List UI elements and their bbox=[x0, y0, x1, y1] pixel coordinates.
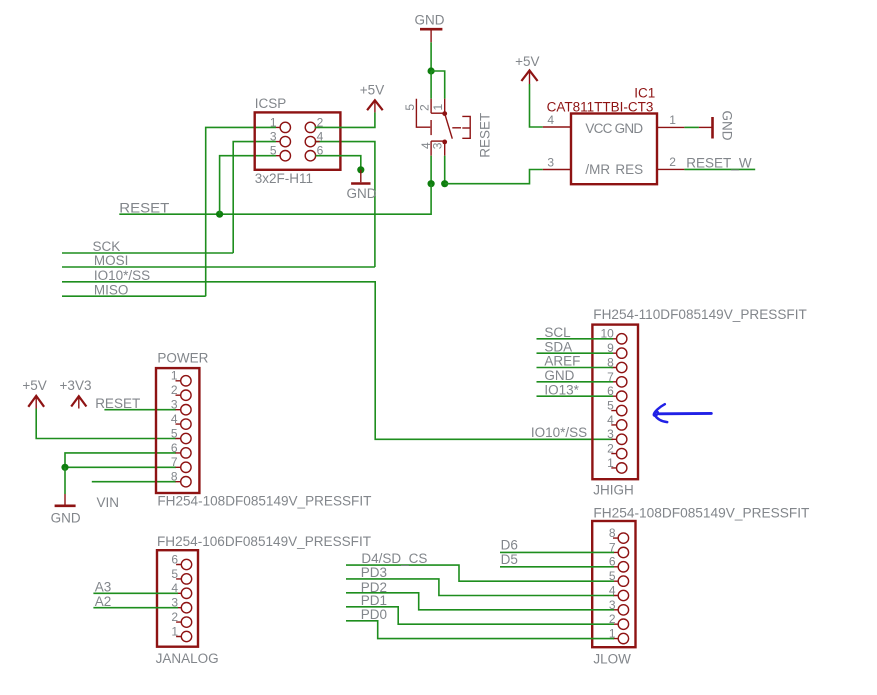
wire IO13* to JHIGH pin6 bbox=[537, 395, 614, 397]
pin number 4 (JLOW) bbox=[609, 583, 616, 597]
svg-text:RES: RES bbox=[615, 162, 643, 177]
label SDA bbox=[544, 339, 572, 354]
pin number 9 (JHIGH) bbox=[607, 341, 614, 355]
wire ICSP pin2 to +5V bbox=[315, 112, 375, 127]
svg-text:SCL: SCL bbox=[544, 325, 571, 340]
label GND net bbox=[544, 368, 574, 383]
pin number 8 (JLOW) bbox=[609, 526, 616, 540]
svg-text:D5: D5 bbox=[501, 552, 518, 567]
wire D4/SD_CS to JLOW pin5 bbox=[346, 565, 614, 581]
svg-text:1: 1 bbox=[270, 115, 277, 129]
label IO10*/SS left bbox=[94, 268, 150, 283]
svg-text:PD0: PD0 bbox=[361, 607, 387, 622]
svg-text:ICSP: ICSP bbox=[255, 96, 287, 111]
svg-text:5: 5 bbox=[270, 144, 277, 158]
label RESET (POWER) bbox=[95, 396, 140, 411]
pin 1 stub (IC1 GND) bbox=[657, 126, 684, 128]
pin number 1 (IC1) bbox=[669, 113, 676, 127]
svg-text:8: 8 bbox=[171, 470, 178, 484]
junction on RESET net bbox=[216, 211, 223, 218]
pin number 1 (POWER) bbox=[171, 369, 178, 383]
pin 4 stub (IC1 VCC) bbox=[543, 126, 571, 128]
svg-text:RESET: RESET bbox=[119, 201, 169, 216]
pin number 3 (switch) bbox=[431, 142, 445, 149]
svg-text:2: 2 bbox=[418, 104, 432, 111]
pin number 2 (JANALOG) bbox=[171, 610, 178, 624]
junction at ICSP GND bbox=[357, 166, 364, 173]
svg-text:PD1: PD1 bbox=[361, 593, 387, 608]
connector POWER FH254-108 bbox=[156, 351, 371, 509]
pin number 3 (ICSP) bbox=[270, 130, 277, 144]
svg-text:GND: GND bbox=[720, 111, 735, 141]
wire MOSI net bbox=[62, 266, 375, 268]
svg-text:3: 3 bbox=[607, 427, 614, 441]
pin number 1 (JANALOG) bbox=[171, 624, 178, 638]
svg-text:FH254-110DF085149V_PRESSFIT: FH254-110DF085149V_PRESSFIT bbox=[593, 307, 807, 322]
pin number 5 (JHIGH) bbox=[607, 399, 614, 413]
svg-text:VCC GND: VCC GND bbox=[585, 121, 643, 136]
power +3V3 bbox=[60, 378, 92, 409]
wire SDA to JHIGH pin9 bbox=[537, 352, 614, 354]
pin 3 stub (IC1 /MR) bbox=[543, 169, 571, 171]
wire +5V to IC pin4 bbox=[530, 84, 543, 127]
svg-text:5: 5 bbox=[403, 104, 417, 111]
svg-text:JANALOG: JANALOG bbox=[156, 651, 219, 666]
wire ICSP pin5 to RESET bbox=[220, 156, 276, 215]
wire ICSP pin6 to GND bbox=[316, 156, 361, 170]
svg-text:3: 3 bbox=[270, 130, 277, 144]
pin number 1 (switch) bbox=[431, 103, 445, 110]
wire switch pin4 down bbox=[430, 156, 432, 184]
label SCK bbox=[93, 239, 121, 254]
svg-text:6: 6 bbox=[171, 552, 178, 566]
label IO10*/SS at JHIGH bbox=[531, 425, 587, 440]
wire GND to JHIGH pin7 bbox=[537, 381, 614, 383]
wire +5V to POWER pin5 bbox=[36, 409, 176, 439]
pin number 2 (switch) bbox=[418, 104, 432, 111]
svg-text:3x2F-H11: 3x2F-H11 bbox=[255, 171, 313, 186]
svg-text:3: 3 bbox=[171, 398, 178, 412]
svg-text:D4/SD_CS: D4/SD_CS bbox=[361, 551, 427, 566]
power +5V (near IC1) bbox=[515, 54, 539, 84]
svg-text:GND: GND bbox=[544, 368, 574, 383]
pin number 5 (JANALOG) bbox=[171, 567, 178, 581]
svg-text:JLOW: JLOW bbox=[593, 651, 631, 666]
svg-text:3: 3 bbox=[431, 142, 445, 149]
pin number 6 (ICSP) bbox=[317, 144, 324, 158]
label RESET net bbox=[119, 201, 169, 216]
IC U1 CAT811TTBI-CT3 bbox=[547, 86, 657, 185]
svg-text:5: 5 bbox=[171, 426, 178, 440]
pin number 5 (ICSP) bbox=[270, 144, 277, 158]
label D6 bbox=[501, 538, 518, 553]
svg-text:A3: A3 bbox=[95, 580, 112, 595]
svg-text:2: 2 bbox=[171, 383, 178, 397]
svg-text:GND: GND bbox=[51, 510, 81, 525]
svg-text:1: 1 bbox=[171, 369, 178, 383]
pin number 5 (POWER) bbox=[171, 426, 178, 440]
svg-text:CAT811TTBI-CT3: CAT811TTBI-CT3 bbox=[547, 99, 654, 114]
svg-text:6: 6 bbox=[171, 441, 178, 455]
junction below switch left bbox=[428, 180, 435, 187]
svg-text:4: 4 bbox=[171, 412, 178, 426]
label MOSI bbox=[94, 253, 129, 268]
pin number 6 (JLOW) bbox=[609, 555, 616, 569]
svg-text:RESET: RESET bbox=[477, 113, 492, 158]
connector JLOW FH254-108 bbox=[592, 505, 809, 666]
wire D5 to JLOW pin6 bbox=[500, 566, 614, 568]
label A2 bbox=[95, 594, 112, 609]
wire RESET net bbox=[119, 184, 431, 215]
wire SCK net bbox=[62, 252, 233, 254]
label SCL bbox=[544, 325, 571, 340]
svg-text:1: 1 bbox=[669, 113, 676, 127]
wire junction to GND bbox=[64, 467, 66, 494]
wire POWER pin6 bbox=[65, 453, 176, 467]
svg-text:7: 7 bbox=[171, 455, 178, 469]
connector JANALOG FH254-106 bbox=[156, 534, 371, 666]
pin number 7 (JLOW) bbox=[609, 540, 616, 554]
svg-text:D6: D6 bbox=[501, 538, 518, 553]
svg-text:2: 2 bbox=[669, 155, 676, 169]
wire ICSP pin1 MISO riser bbox=[206, 127, 276, 296]
svg-text:AREF: AREF bbox=[544, 354, 580, 369]
svg-text:GND: GND bbox=[415, 13, 445, 28]
label PD2 bbox=[361, 580, 387, 595]
annotation blue arrow bbox=[654, 404, 711, 422]
svg-text:IO13*: IO13* bbox=[544, 382, 579, 397]
wire IC pin1 to GND bbox=[684, 126, 699, 128]
pin number 2 (IC1) bbox=[669, 155, 676, 169]
label PD3 bbox=[361, 565, 387, 580]
svg-text:RESET_W: RESET_W bbox=[686, 155, 752, 170]
svg-text:5: 5 bbox=[171, 567, 178, 581]
svg-text:FH254-108DF085149V_PRESSFIT: FH254-108DF085149V_PRESSFIT bbox=[157, 494, 371, 509]
connector ICSP 3x2F-H11 bbox=[255, 96, 341, 186]
pin number 6 (JANALOG) bbox=[171, 552, 178, 566]
svg-text:+5V: +5V bbox=[360, 83, 384, 98]
svg-text:/MR: /MR bbox=[585, 162, 610, 177]
pin number 7 (JHIGH) bbox=[607, 370, 614, 384]
wire A3 to JANALOG pin4 bbox=[93, 592, 178, 594]
pin number 6 (POWER) bbox=[171, 441, 178, 455]
pin number 6 (JHIGH) bbox=[607, 384, 614, 398]
connector JHIGH FH254-110 bbox=[592, 307, 806, 498]
label D4/SD_CS bbox=[361, 551, 427, 566]
svg-text:1: 1 bbox=[607, 456, 614, 470]
wire PD3 to JLOW pin4 bbox=[346, 579, 614, 596]
wire IO10*/SS net to JHIGH pin3 bbox=[62, 282, 613, 440]
ground GND (POWER) bbox=[51, 494, 81, 525]
wire junction to switch pin2 bbox=[430, 71, 432, 99]
wire D6 to JLOW pin7 bbox=[500, 551, 614, 553]
pin number 3 (JLOW) bbox=[609, 598, 616, 612]
label VIN bbox=[97, 495, 120, 510]
pin number 5 (switch) bbox=[403, 104, 417, 111]
pin number 5 (JLOW) bbox=[609, 569, 616, 583]
power +5V (left, POWER) bbox=[22, 378, 46, 409]
pin number 7 (POWER) bbox=[171, 455, 178, 469]
svg-text:2: 2 bbox=[607, 442, 614, 456]
wire RESET_W net bbox=[684, 168, 755, 170]
pin 2 stub (IC1 RES) bbox=[657, 168, 684, 170]
svg-text:1: 1 bbox=[171, 624, 178, 638]
svg-text:4: 4 bbox=[317, 130, 324, 144]
junction POWER GND bbox=[61, 464, 68, 471]
wire RESET to POWER pin3 bbox=[104, 409, 176, 411]
svg-text:IC1: IC1 bbox=[634, 86, 655, 101]
svg-text:JHIGH: JHIGH bbox=[593, 483, 634, 498]
svg-text:5: 5 bbox=[607, 399, 614, 413]
svg-text:SCK: SCK bbox=[93, 239, 121, 254]
label IO13* bbox=[544, 382, 579, 397]
wire VIN to POWER pin8 bbox=[92, 481, 176, 483]
ground GND (right of IC1, rotated) bbox=[699, 111, 735, 141]
pin number 3 (POWER) bbox=[171, 398, 178, 412]
svg-text:8: 8 bbox=[609, 526, 616, 540]
wire MISO net bbox=[62, 295, 206, 297]
pin number 1 (JLOW) bbox=[609, 627, 616, 641]
svg-text:IO10*/SS: IO10*/SS bbox=[94, 268, 150, 283]
label MISO bbox=[94, 282, 129, 297]
wire A2 to JANALOG pin3 bbox=[93, 607, 178, 609]
junction below switch right bbox=[441, 180, 448, 187]
pin number 1 (JHIGH) bbox=[607, 456, 614, 470]
pin number 2 (ICSP) bbox=[317, 115, 324, 129]
pushbutton RESET (switch S1) bbox=[416, 99, 470, 156]
wire ICSP pin4 MOSI drop bbox=[315, 142, 375, 267]
pin number 8 (POWER) bbox=[171, 470, 178, 484]
svg-text:VIN: VIN bbox=[97, 495, 120, 510]
wire GND to switch junction bbox=[430, 42, 432, 71]
wire PD1 to JLOW pin2 bbox=[346, 607, 614, 624]
label PD1 bbox=[361, 593, 387, 608]
label A3 bbox=[95, 580, 112, 595]
label AREF bbox=[544, 354, 580, 369]
wire switch to IC pin3 bbox=[445, 170, 543, 184]
ground GND top bbox=[415, 13, 445, 43]
wire ICSP pin3 SCK riser bbox=[233, 142, 276, 253]
power +5V (near ICSP) bbox=[360, 83, 384, 113]
pin number 4 (switch) bbox=[419, 142, 433, 149]
svg-text:4: 4 bbox=[547, 113, 554, 127]
wire switch pin3 down bbox=[444, 156, 446, 184]
label RESET (switch name, rotated) bbox=[477, 113, 492, 158]
pin number 8 (JHIGH) bbox=[607, 355, 614, 369]
pin number 1 (ICSP) bbox=[270, 115, 277, 129]
pin number 2 (JHIGH) bbox=[607, 442, 614, 456]
wire junction to switch pin1 bbox=[431, 71, 445, 99]
pin number 2 (POWER) bbox=[171, 383, 178, 397]
junction above switch bbox=[428, 67, 435, 74]
svg-text:+5V: +5V bbox=[22, 378, 46, 393]
pin number 4 (POWER) bbox=[171, 412, 178, 426]
pin number 3 (IC1) bbox=[547, 155, 554, 169]
svg-text:SDA: SDA bbox=[544, 339, 572, 354]
svg-text:RESET: RESET bbox=[95, 396, 140, 411]
label PD0 bbox=[361, 607, 387, 622]
svg-text:2: 2 bbox=[171, 610, 178, 624]
wire SCL to JHIGH pin10 bbox=[537, 338, 614, 340]
svg-text:A2: A2 bbox=[95, 594, 112, 609]
svg-text:3: 3 bbox=[547, 155, 554, 169]
label RESET_W bbox=[686, 155, 752, 170]
wire AREF to JHIGH pin8 bbox=[537, 367, 614, 369]
svg-text:+3V3: +3V3 bbox=[60, 378, 92, 393]
svg-text:IO10*/SS: IO10*/SS bbox=[531, 425, 587, 440]
svg-text:FH254-106DF085149V_PRESSFIT: FH254-106DF085149V_PRESSFIT bbox=[157, 534, 371, 549]
pin number 4 (IC1) bbox=[547, 113, 554, 127]
pin number 2 (JLOW) bbox=[609, 612, 616, 626]
label D5 bbox=[501, 552, 518, 567]
wire PD0 to JLOW pin1 bbox=[346, 621, 614, 639]
svg-text:1: 1 bbox=[431, 103, 445, 110]
wire PD2 to JLOW pin3 bbox=[346, 593, 614, 610]
ground GND (ICSP) bbox=[347, 170, 377, 201]
pin number 3 (JHIGH) bbox=[607, 427, 614, 441]
svg-text:4: 4 bbox=[607, 413, 614, 427]
svg-text:MISO: MISO bbox=[94, 282, 129, 297]
pin number 4 (JHIGH) bbox=[607, 413, 614, 427]
pin number 4 (ICSP) bbox=[317, 130, 324, 144]
svg-text:GND: GND bbox=[347, 186, 377, 201]
svg-text:POWER: POWER bbox=[157, 351, 208, 366]
wire POWER pin7 bbox=[65, 466, 176, 468]
pin number 10 (JHIGH) bbox=[600, 327, 614, 341]
pin number 3 (JANALOG) bbox=[171, 596, 178, 610]
svg-text:MOSI: MOSI bbox=[94, 253, 129, 268]
svg-text:FH254-108DF085149V_PRESSFIT: FH254-108DF085149V_PRESSFIT bbox=[593, 505, 809, 520]
svg-text:PD3: PD3 bbox=[361, 565, 387, 580]
svg-text:+5V: +5V bbox=[515, 54, 539, 69]
pin number 4 (JANALOG) bbox=[171, 581, 178, 595]
